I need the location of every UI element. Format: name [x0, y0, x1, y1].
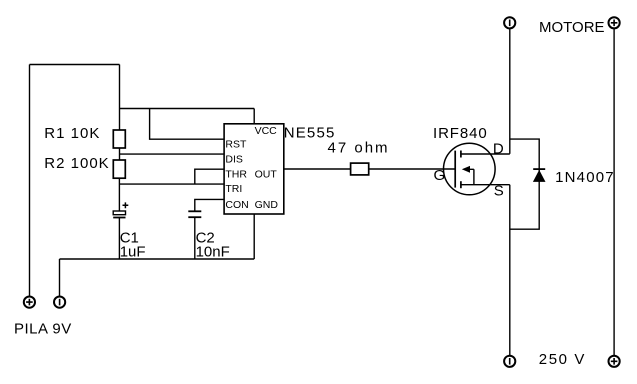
diode D1 1N4007: [510, 139, 546, 229]
wire RST link: [150, 109, 225, 140]
svg-text:RST: RST: [225, 139, 247, 151]
wire resistor to gate: [369, 168, 456, 170]
svg-text:10nF: 10nF: [196, 243, 230, 260]
resistor R2: [113, 160, 125, 178]
wire vplus down to R1: [119, 65, 121, 131]
transistor Q1 IRF840: [444, 143, 510, 195]
terminal motor minus: [504, 17, 515, 28]
svg-text:D: D: [493, 140, 504, 157]
resistor R1: [113, 130, 125, 148]
svg-text:TRI: TRI: [225, 183, 242, 195]
IC U1 NE555 body: [224, 124, 284, 214]
wire VCC rail: [120, 108, 255, 110]
svg-text:CON: CON: [225, 199, 248, 211]
svg-text:MOTORE: MOTORE: [539, 19, 605, 36]
svg-text:THR: THR: [225, 169, 247, 181]
capacitor C1 polarized: [113, 202, 128, 217]
wire THR link: [195, 169, 224, 184]
wire chip GND drop: [253, 214, 255, 259]
wire motor line down to drain: [509, 28, 511, 153]
wire battery plus vertical: [29, 65, 31, 296]
terminal battery minus: [54, 297, 65, 308]
wire ground rail: [60, 258, 255, 260]
svg-text:IRF840: IRF840: [433, 125, 488, 142]
wire R2 to C1: [118, 178, 120, 211]
wire TRI link: [120, 183, 225, 185]
svg-text:DIS: DIS: [225, 154, 243, 166]
terminal battery plus: [24, 297, 35, 308]
wire CON link: [195, 199, 224, 210]
svg-text:PILA 9V: PILA 9V: [14, 320, 72, 337]
svg-text:S: S: [494, 183, 504, 200]
svg-text:OUT: OUT: [255, 169, 278, 181]
terminal 250V minus: [504, 356, 515, 367]
wire R1 R2 junction: [119, 148, 121, 160]
svg-text:GND: GND: [255, 199, 279, 211]
svg-text:VCC: VCC: [255, 125, 278, 137]
svg-text:1uF: 1uF: [120, 243, 146, 260]
wire OUT to series resistor: [284, 168, 351, 170]
capacitor C2: [188, 211, 201, 217]
wire top horizontal: [30, 64, 120, 66]
svg-text:1N4007: 1N4007: [555, 169, 615, 186]
svg-text:R2 100K: R2 100K: [44, 155, 109, 172]
svg-text:G: G: [434, 167, 446, 184]
terminal 250V plus: [609, 356, 620, 367]
wire DIS link: [120, 153, 225, 155]
svg-text:250 V: 250 V: [539, 351, 586, 368]
resistor R3 47 ohm: [351, 163, 369, 175]
wire C2 to ground rail: [194, 217, 196, 259]
wire C1 to ground rail: [118, 218, 120, 260]
wire right rail motor plus: [613, 29, 615, 355]
svg-text:R1 10K: R1 10K: [44, 125, 100, 142]
wire VCC drop to chip: [253, 109, 255, 124]
terminal motor plus: [609, 17, 620, 28]
svg-text:47 ohm: 47 ohm: [328, 140, 390, 157]
wire battery minus drop: [59, 259, 61, 296]
wire source down to 250V terminal: [509, 185, 511, 356]
